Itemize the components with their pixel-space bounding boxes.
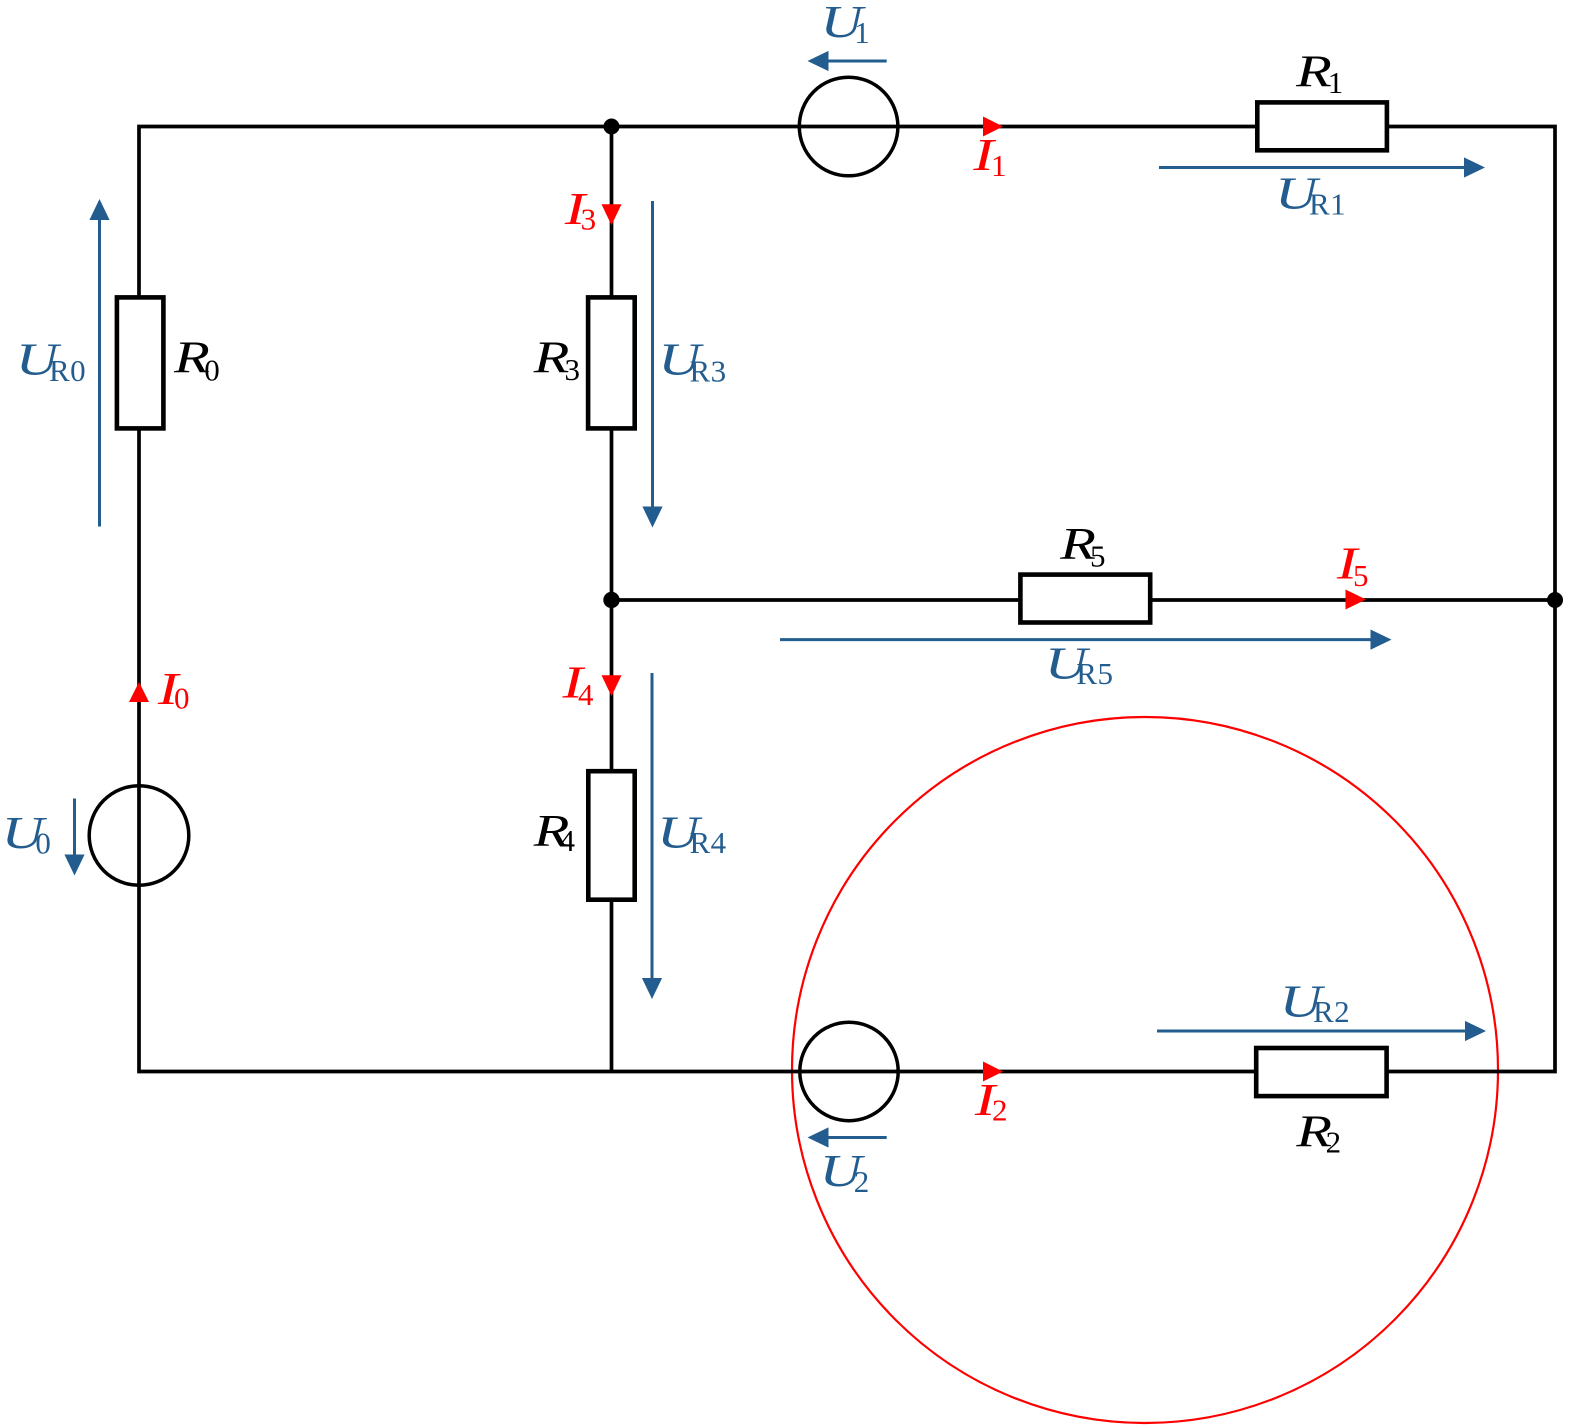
label U2 [820, 1146, 870, 1199]
label I5 [1336, 538, 1369, 593]
resistor R3 [588, 297, 635, 428]
current arrow I2 [983, 1062, 1003, 1082]
svg-text:0: 0 [174, 681, 190, 716]
voltage arrow UR0 [89, 199, 109, 527]
current arrow I5 [1346, 590, 1367, 610]
svg-text:R3: R3 [690, 354, 727, 389]
svg-text:5: 5 [1090, 538, 1106, 573]
svg-text:3: 3 [581, 202, 597, 237]
red mesh loop circle [792, 717, 1498, 1423]
svg-text:1: 1 [991, 148, 1007, 183]
voltage arrow UR2 [1157, 1021, 1486, 1041]
voltage arrow U0 [64, 799, 84, 876]
label I2 [974, 1074, 1008, 1127]
svg-text:0: 0 [204, 352, 220, 387]
label U1 [821, 0, 871, 50]
label R0 [173, 332, 220, 387]
voltage arrow UR5 [780, 630, 1392, 650]
source U2 [800, 1022, 898, 1120]
svg-text:4: 4 [578, 677, 594, 712]
svg-text:R4: R4 [690, 825, 727, 860]
label I0 [157, 663, 190, 715]
label I3 [564, 183, 597, 236]
svg-text:R: R [1295, 46, 1332, 97]
label R3 [533, 332, 581, 387]
svg-text:2: 2 [1326, 1125, 1342, 1160]
wire outer loop [139, 127, 1555, 1072]
current arrow I0 [129, 682, 149, 702]
svg-text:0: 0 [35, 826, 51, 861]
current arrow I3 [602, 204, 622, 225]
svg-text:3: 3 [565, 352, 581, 387]
voltage arrow UR4 [642, 673, 662, 999]
source U0 [89, 786, 189, 886]
source U1 [799, 77, 898, 176]
node right junction [1547, 592, 1563, 608]
resistor R4 [588, 771, 634, 900]
voltage arrow U2 [808, 1127, 887, 1147]
svg-text:R5: R5 [1076, 656, 1113, 691]
svg-text:4: 4 [560, 823, 576, 858]
voltage arrow U1 [808, 51, 887, 71]
current arrow I4 [602, 675, 622, 696]
label U0 [2, 808, 52, 861]
label UR2 [1280, 976, 1350, 1029]
resistor R2 [1256, 1048, 1386, 1096]
svg-text:2: 2 [854, 1164, 870, 1199]
label I1 [972, 129, 1007, 183]
svg-text:2: 2 [992, 1093, 1008, 1128]
label R5 [1059, 519, 1106, 574]
label UR0 [16, 334, 86, 388]
label UR3 [658, 334, 726, 388]
label R2 [1295, 1106, 1341, 1159]
node top junction [604, 119, 620, 135]
voltage arrow UR3 [642, 201, 662, 528]
node middle junction [603, 592, 619, 608]
current arrow I1 [983, 117, 1003, 137]
resistor R5 [1020, 575, 1150, 623]
label UR4 [657, 807, 727, 859]
svg-text:R1: R1 [1309, 187, 1346, 222]
label R4 [533, 806, 576, 858]
resistor R1 [1257, 102, 1387, 150]
svg-text:5: 5 [1353, 558, 1369, 593]
resistor R0 [117, 297, 163, 428]
svg-text:1: 1 [854, 15, 870, 50]
svg-text:R0: R0 [49, 353, 86, 388]
svg-text:R2: R2 [1313, 994, 1350, 1029]
label UR5 [1045, 638, 1114, 691]
voltage arrow UR1 [1159, 157, 1485, 177]
label UR1 [1275, 168, 1346, 221]
svg-text:1: 1 [1328, 65, 1344, 100]
wire middle vertical [610, 127, 614, 1072]
wire middle horizontal [612, 598, 1556, 602]
label R1 [1295, 46, 1344, 100]
label I4 [561, 657, 594, 712]
